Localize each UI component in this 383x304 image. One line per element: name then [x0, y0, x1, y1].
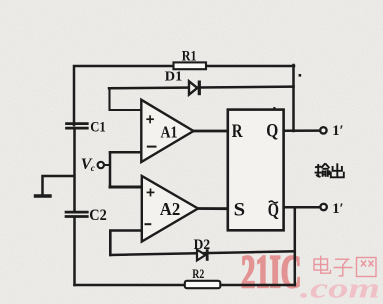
svg-text:S: S	[234, 200, 246, 221]
svg-text:C2: C2	[89, 207, 107, 224]
svg-text:R1: R1	[182, 48, 197, 64]
svg-text:21IC: 21IC	[241, 246, 302, 298]
svg-text:D1: D1	[165, 70, 183, 85]
svg-text:R2: R2	[192, 267, 204, 281]
svg-text:R: R	[232, 121, 243, 142]
svg-text:1′: 1′	[332, 201, 343, 217]
svg-text:Q: Q	[266, 120, 278, 141]
svg-text:1′: 1′	[332, 123, 343, 139]
svg-text:C1: C1	[90, 120, 106, 136]
svg-text:Q: Q	[268, 200, 279, 221]
svg-text:D2: D2	[194, 237, 211, 253]
svg-text:A1: A1	[161, 123, 178, 142]
svg-text:A2: A2	[160, 199, 181, 219]
svg-text:.com: .com	[300, 273, 380, 304]
svg-text:c: c	[91, 163, 95, 173]
